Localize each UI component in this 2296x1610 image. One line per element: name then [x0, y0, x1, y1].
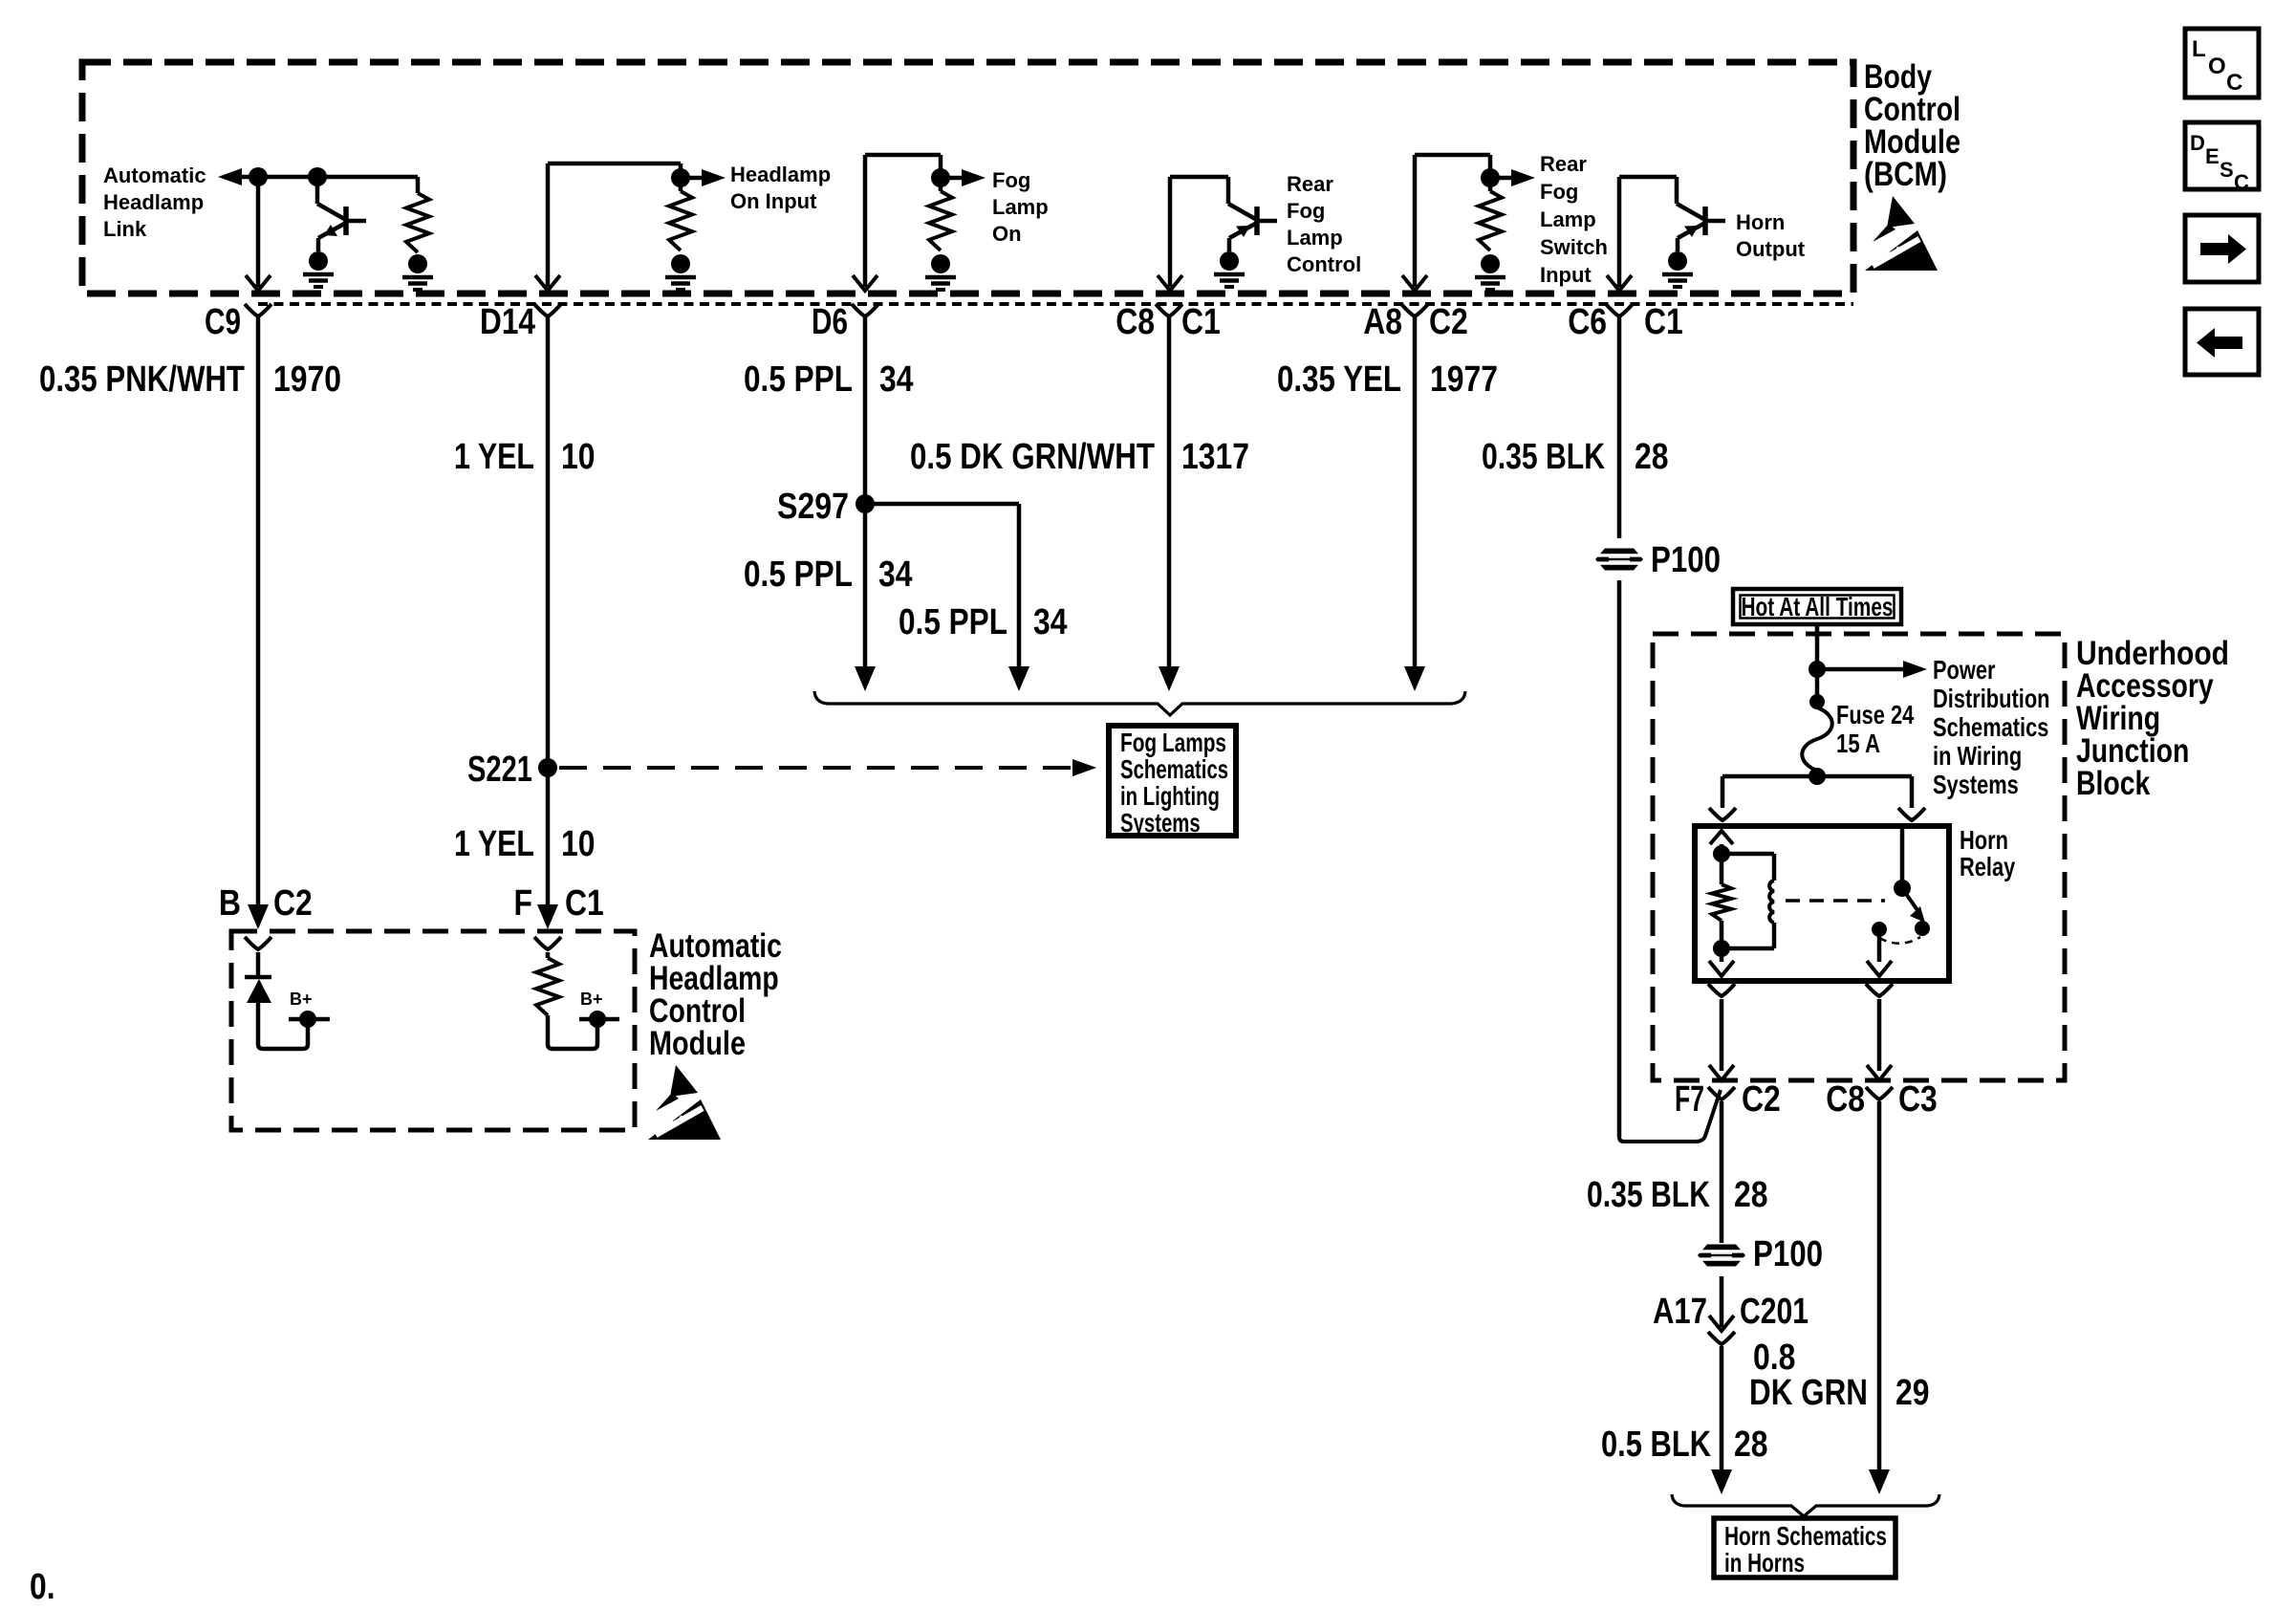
svg-text:Headlamp: Headlamp	[730, 163, 831, 186]
svg-text:10: 10	[561, 437, 596, 477]
svg-text:in Wiring: in Wiring	[1933, 741, 2022, 771]
svg-text:L: L	[2192, 36, 2206, 62]
svg-text:0.35 BLK: 0.35 BLK	[1482, 437, 1605, 477]
svg-text:10: 10	[561, 824, 596, 864]
svg-text:C201: C201	[1740, 1292, 1809, 1332]
svg-text:B: B	[219, 883, 241, 924]
svg-text:Control: Control	[1287, 252, 1361, 276]
svg-text:0.35 BLK: 0.35 BLK	[1587, 1175, 1710, 1215]
svg-text:Fog: Fog	[992, 168, 1030, 192]
svg-text:1977: 1977	[1430, 359, 1498, 400]
svg-text:0.5 PPL: 0.5 PPL	[744, 359, 853, 400]
svg-text:F7: F7	[1675, 1079, 1704, 1120]
svg-text:Link: Link	[103, 217, 147, 241]
svg-text:Fog: Fog	[1540, 180, 1578, 204]
svg-text:0.35 YEL: 0.35 YEL	[1277, 359, 1401, 400]
svg-text:34: 34	[878, 555, 913, 595]
svg-text:in Lighting: in Lighting	[1120, 781, 1220, 811]
svg-text:28: 28	[1635, 437, 1669, 477]
svg-text:Output: Output	[1736, 237, 1806, 261]
svg-text:Horn: Horn	[1736, 210, 1785, 234]
svg-text:1970: 1970	[273, 359, 341, 400]
svg-text:Rear: Rear	[1540, 152, 1587, 176]
svg-text:Lamp: Lamp	[1287, 226, 1343, 250]
svg-text:C1: C1	[1181, 302, 1221, 342]
svg-text:0.5 DK GRN/WHT: 0.5 DK GRN/WHT	[910, 437, 1155, 477]
svg-text:Schematics: Schematics	[1933, 712, 2048, 742]
svg-text:On: On	[992, 222, 1022, 246]
svg-text:28: 28	[1734, 1425, 1768, 1465]
svg-text:Switch: Switch	[1540, 235, 1608, 259]
svg-text:Relay: Relay	[1960, 852, 2016, 881]
svg-text:B+: B+	[290, 990, 313, 1009]
svg-text:0.5 BLK: 0.5 BLK	[1601, 1425, 1711, 1465]
svg-text:0.5 PPL: 0.5 PPL	[744, 555, 853, 595]
svg-text:C3: C3	[1898, 1079, 1938, 1120]
svg-text:in Horns: in Horns	[1724, 1548, 1805, 1577]
svg-text:28: 28	[1734, 1175, 1768, 1215]
svg-text:Automatic: Automatic	[103, 163, 206, 187]
svg-text:C2: C2	[1429, 302, 1468, 342]
svg-text:S: S	[2220, 158, 2234, 182]
svg-text:D14: D14	[480, 302, 535, 342]
svg-text:C2: C2	[273, 883, 313, 924]
svg-text:1317: 1317	[1181, 437, 1249, 477]
svg-text:Distribution: Distribution	[1933, 684, 2050, 713]
svg-text:C: C	[2234, 170, 2249, 194]
svg-text:34: 34	[879, 359, 914, 400]
svg-text:E: E	[2205, 144, 2220, 168]
svg-text:S221: S221	[467, 750, 532, 790]
svg-text:Schematics: Schematics	[1120, 754, 1228, 784]
svg-text:Block: Block	[2076, 764, 2151, 802]
svg-text:34: 34	[1033, 602, 1068, 642]
svg-text:B+: B+	[580, 990, 603, 1009]
svg-text:C: C	[2226, 70, 2242, 96]
svg-text:Headlamp: Headlamp	[103, 190, 204, 214]
svg-text:Fog: Fog	[1287, 199, 1325, 223]
svg-text:S297: S297	[777, 487, 849, 527]
svg-text:C9: C9	[205, 302, 241, 342]
svg-text:C6: C6	[1568, 302, 1607, 342]
svg-text:DK GRN: DK GRN	[1749, 1373, 1868, 1413]
svg-text:Systems: Systems	[1933, 770, 2019, 799]
svg-text:Power: Power	[1933, 655, 1996, 685]
svg-text:Lamp: Lamp	[992, 195, 1049, 219]
svg-text:Fog Lamps: Fog Lamps	[1120, 728, 1226, 757]
svg-text:O: O	[2208, 54, 2226, 79]
svg-text:Rear: Rear	[1287, 172, 1333, 196]
svg-text:(BCM): (BCM)	[1864, 155, 1947, 193]
svg-text:Fuse 24: Fuse 24	[1836, 700, 1915, 729]
svg-text:1 YEL: 1 YEL	[454, 437, 534, 477]
svg-text:Input: Input	[1540, 263, 1592, 287]
svg-text:C1: C1	[1644, 302, 1683, 342]
svg-text:C8: C8	[1116, 302, 1155, 342]
svg-text:Horn Schematics: Horn Schematics	[1724, 1521, 1887, 1551]
svg-text:On Input: On Input	[730, 189, 817, 213]
svg-text:A17: A17	[1653, 1292, 1707, 1332]
svg-text:1 YEL: 1 YEL	[454, 824, 534, 864]
svg-text:0.8: 0.8	[1753, 1338, 1795, 1378]
svg-text:A8: A8	[1363, 302, 1402, 342]
svg-text:C1: C1	[565, 883, 604, 924]
svg-text:P100: P100	[1651, 540, 1721, 580]
svg-text:C2: C2	[1742, 1079, 1781, 1120]
svg-text:Module: Module	[649, 1024, 746, 1062]
svg-text:D6: D6	[812, 302, 848, 342]
svg-text:C8: C8	[1826, 1079, 1865, 1120]
svg-text:Hot At All Times: Hot At All Times	[1742, 592, 1894, 621]
svg-text:Systems: Systems	[1120, 808, 1201, 838]
svg-text:0.: 0.	[30, 1567, 55, 1607]
svg-text:0.35 PNK/WHT: 0.35 PNK/WHT	[39, 359, 245, 400]
svg-text:D: D	[2190, 131, 2205, 155]
svg-text:F: F	[514, 883, 533, 924]
svg-text:Horn: Horn	[1960, 825, 2008, 855]
svg-text:29: 29	[1895, 1373, 1930, 1413]
svg-text:Lamp: Lamp	[1540, 207, 1596, 231]
svg-text:0.5 PPL: 0.5 PPL	[899, 602, 1007, 642]
svg-text:15 A: 15 A	[1836, 729, 1880, 758]
svg-text:P100: P100	[1753, 1234, 1823, 1274]
